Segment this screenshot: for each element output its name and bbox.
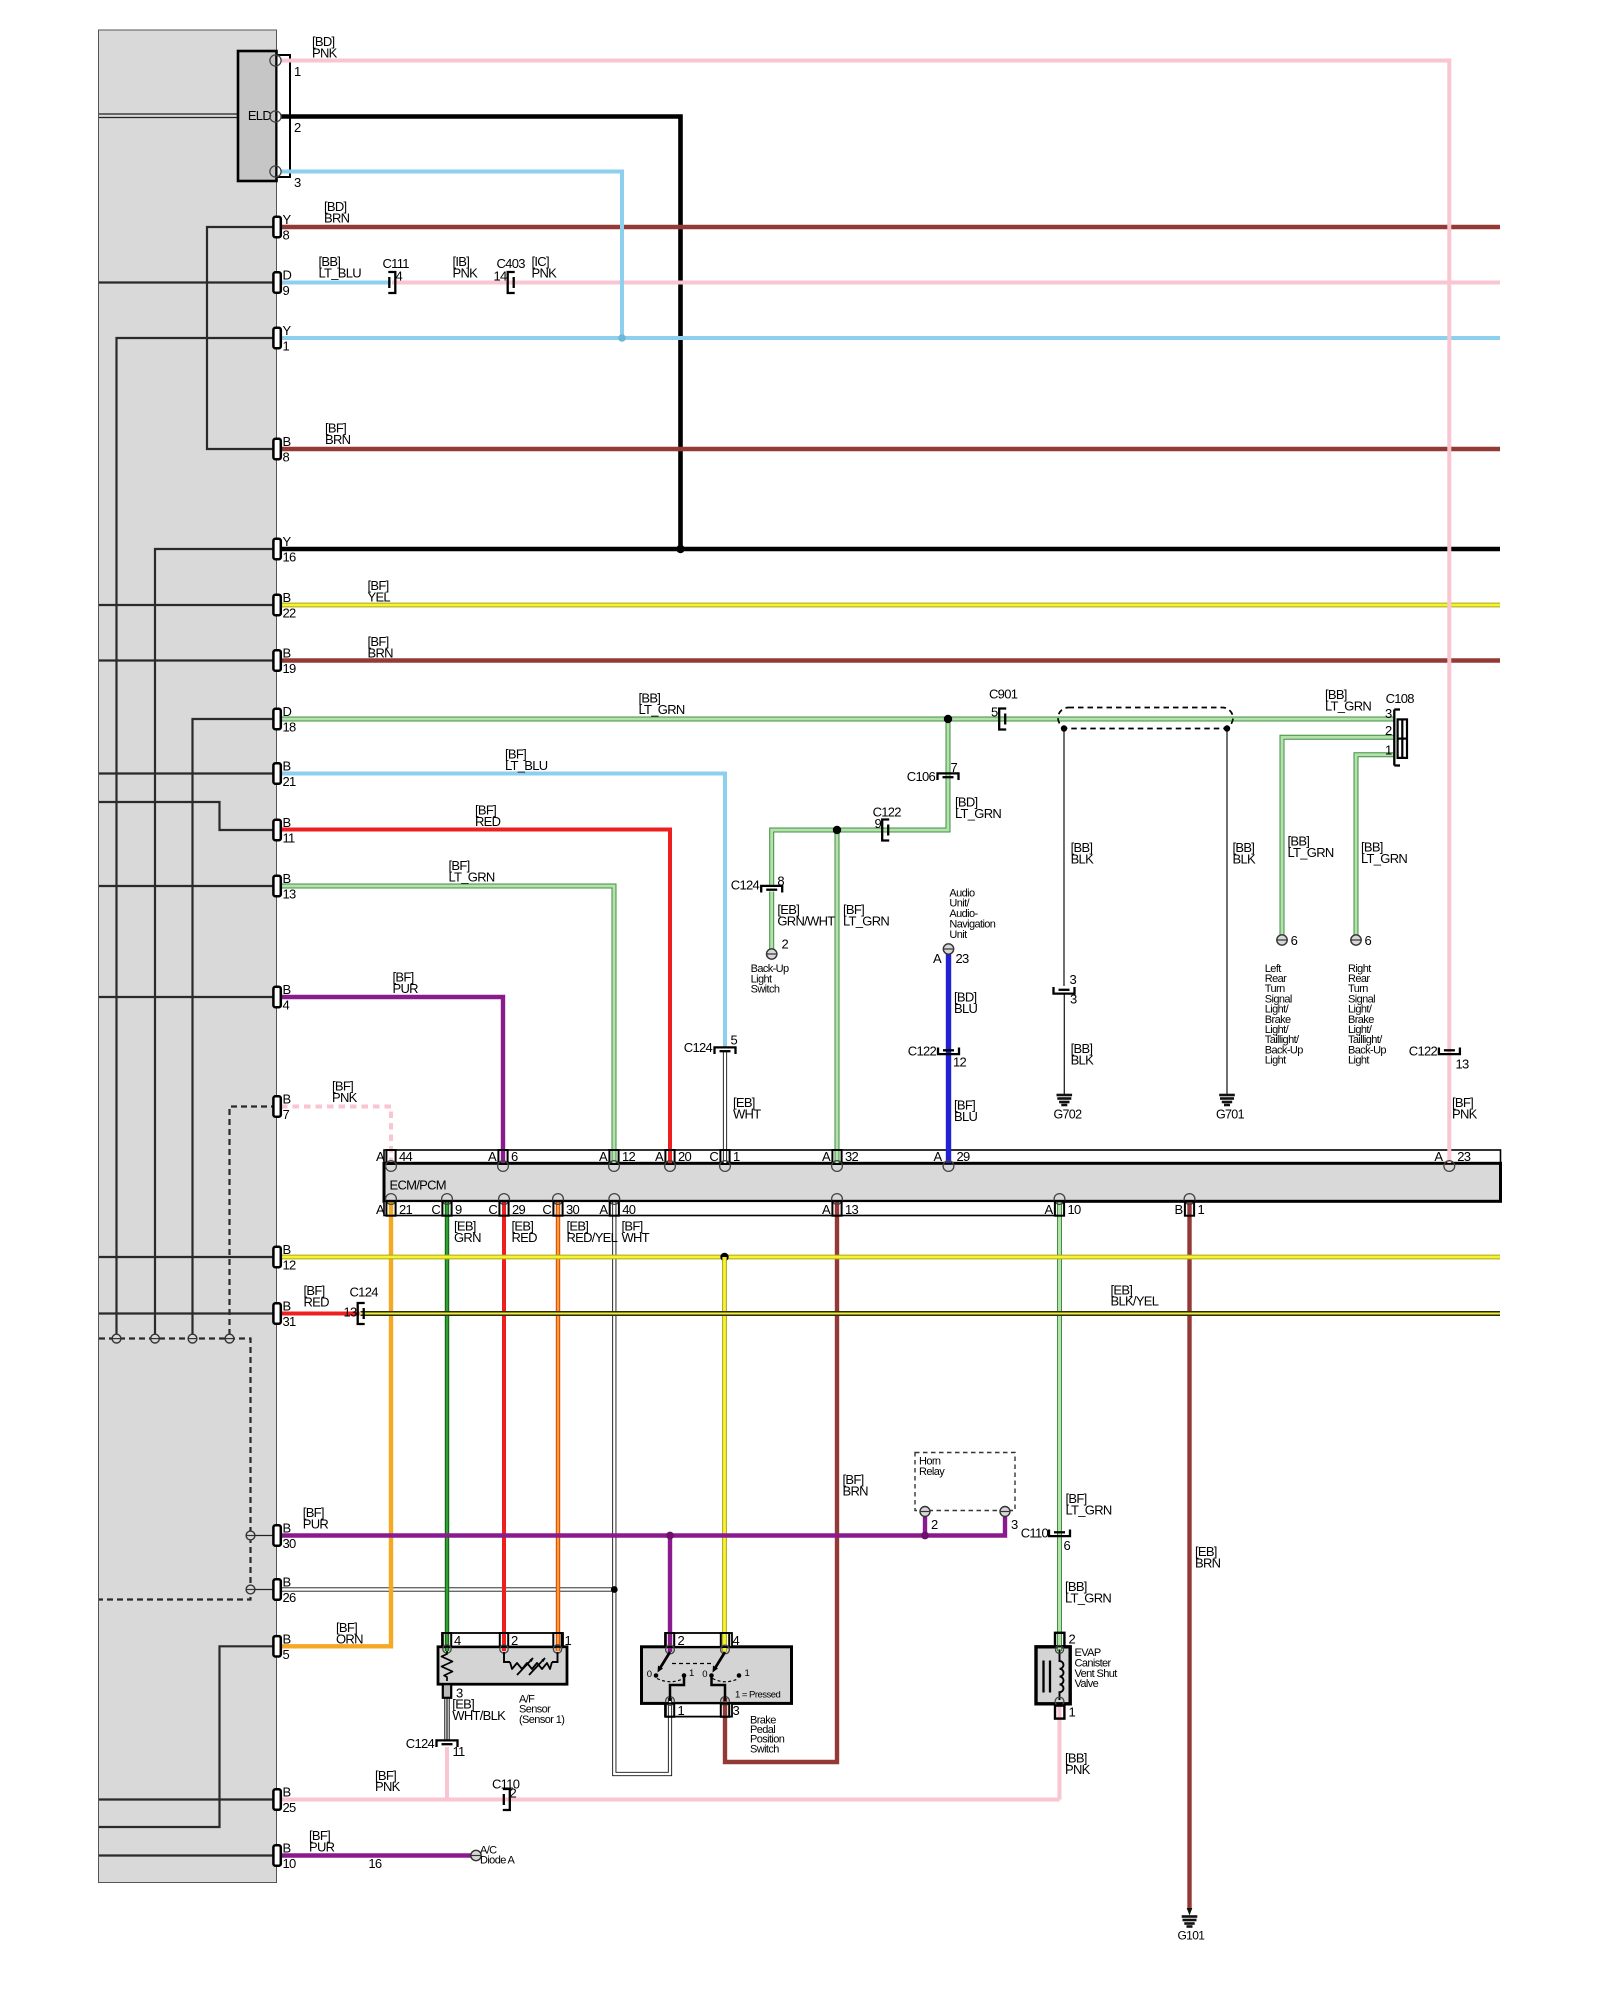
label: [EB] GRN/WHT wire bbox=[777, 902, 835, 928]
pin: audio unit terminal A23 bbox=[933, 944, 969, 966]
svg-text:9: 9 bbox=[874, 816, 881, 831]
svg-text:1: 1 bbox=[689, 1668, 694, 1679]
svg-text:1: 1 bbox=[565, 1633, 572, 1648]
harness pin B13 bbox=[273, 871, 296, 902]
label: [BF] BRN wire bbox=[325, 421, 351, 447]
harness pin B30 bbox=[273, 1521, 296, 1552]
svg-text:13: 13 bbox=[283, 887, 297, 902]
gray harness panel (left sidebar) bbox=[99, 30, 277, 1883]
svg-text:BLU: BLU bbox=[954, 1001, 977, 1016]
A/F sensor pin circles bbox=[443, 1645, 562, 1653]
svg-text:10: 10 bbox=[1068, 1202, 1082, 1217]
svg-text:RED: RED bbox=[304, 1294, 330, 1309]
svg-text:B: B bbox=[283, 1521, 291, 1536]
wire: ELD pin1 PNK [BD] bbox=[281, 61, 1449, 1164]
svg-text:PNK: PNK bbox=[1452, 1106, 1478, 1121]
harness pin B10 bbox=[273, 1841, 296, 1872]
EVAP solenoid coil bbox=[1055, 1646, 1064, 1706]
svg-text:B: B bbox=[283, 982, 291, 997]
ECM/PCM pin A12 bbox=[599, 1149, 635, 1172]
svg-text:C108: C108 bbox=[1386, 691, 1415, 706]
svg-text:BRN: BRN bbox=[325, 432, 351, 447]
svg-text:2: 2 bbox=[510, 1786, 517, 1801]
svg-text:LT_GRN: LT_GRN bbox=[1066, 1502, 1112, 1517]
svg-text:A: A bbox=[822, 1149, 831, 1164]
label: [BD] PNK wire bbox=[312, 34, 338, 60]
label: [IC] PNK wire bbox=[532, 254, 558, 280]
svg-text:10: 10 bbox=[283, 1856, 297, 1871]
svg-text:B: B bbox=[283, 815, 291, 830]
svg-text:(Sensor 1): (Sensor 1) bbox=[519, 1714, 564, 1726]
ECM/PCM pin A6 bbox=[488, 1149, 518, 1172]
svg-text:16: 16 bbox=[283, 550, 297, 565]
svg-text:YEL: YEL bbox=[368, 589, 391, 604]
wire: LT_GRN corner to Back-Up switch branch bbox=[772, 830, 841, 886]
connector C124-11 bbox=[406, 1736, 465, 1759]
harness pin B8 bbox=[273, 434, 290, 465]
ECM/PCM pin A40 bbox=[599, 1194, 635, 1218]
svg-text:1: 1 bbox=[1385, 743, 1392, 758]
svg-text:B: B bbox=[283, 590, 291, 605]
svg-text:1: 1 bbox=[283, 339, 290, 354]
label: [BF] PNK wire bbox=[375, 1768, 401, 1794]
svg-text:0: 0 bbox=[702, 1669, 707, 1680]
wire: LT_GRN C901 to C108 pin3 bbox=[1000, 717, 1395, 722]
svg-text:B: B bbox=[283, 1785, 291, 1800]
svg-text:LT_GRN: LT_GRN bbox=[1325, 698, 1371, 713]
harness pin B31 bbox=[273, 1299, 296, 1330]
harness pin Y16 bbox=[273, 534, 296, 565]
svg-text:A: A bbox=[376, 1202, 385, 1217]
svg-text:BLK: BLK bbox=[1071, 1052, 1094, 1067]
brake switch pin circles top bbox=[666, 1645, 730, 1654]
svg-text:31: 31 bbox=[283, 1314, 297, 1329]
label: [BF] PNK wire bbox=[1452, 1095, 1478, 1121]
svg-text:Relay: Relay bbox=[919, 1466, 945, 1478]
svg-text:G101: G101 bbox=[1178, 1929, 1206, 1943]
wire: B1 BRN [EB] to G101 bbox=[1187, 1202, 1191, 1911]
wire: A40 WHT [BF] to brake switch pin1 bbox=[614, 1202, 670, 1775]
svg-text:BRN: BRN bbox=[324, 210, 350, 225]
brake switch pin circles bottom bbox=[666, 1697, 730, 1706]
pin: horn relay pin3 bbox=[1000, 1507, 1018, 1533]
A/F sensor top connector bbox=[442, 1633, 572, 1648]
label: [BF] ORN wire bbox=[336, 1620, 363, 1646]
svg-text:9: 9 bbox=[283, 283, 290, 298]
svg-text:GRN/WHT: GRN/WHT bbox=[777, 914, 835, 929]
svg-text:ELD: ELD bbox=[248, 108, 271, 123]
svg-text:13: 13 bbox=[1456, 1057, 1470, 1072]
ELD box bbox=[238, 51, 277, 181]
wire: YEL branch to brake switch pin4 bbox=[722, 1257, 727, 1652]
connector 3/3 inline bbox=[1054, 972, 1078, 1007]
label: 1 = Pressed bbox=[735, 1690, 780, 1701]
ECM/PCM pin B1 bbox=[1175, 1194, 1205, 1218]
node: LT_GRN junction at C901 branch bbox=[944, 715, 952, 723]
label: [BF] PUR wire bbox=[393, 970, 419, 996]
svg-text:LT_BLU: LT_BLU bbox=[505, 758, 548, 773]
wire: BLU [BF] C122 to A29 bbox=[946, 1051, 951, 1163]
connector C901-5 bbox=[989, 687, 1018, 730]
ECM/PCM pin A10 bbox=[1045, 1194, 1081, 1218]
svg-text:12: 12 bbox=[283, 1258, 297, 1273]
svg-text:B: B bbox=[283, 1575, 291, 1590]
svg-text:B: B bbox=[283, 1841, 291, 1856]
A/F sensor body bbox=[438, 1633, 567, 1684]
svg-text:C: C bbox=[488, 1202, 497, 1217]
svg-text:8: 8 bbox=[777, 874, 784, 889]
node: PUR junction horn pin2 bbox=[921, 1532, 929, 1540]
wire: BLK/YEL [EB] bbox=[361, 1311, 1501, 1316]
wire: C30 RED/YEL [EB] to A/F pin1 bbox=[556, 1202, 560, 1652]
svg-text:C122: C122 bbox=[1409, 1044, 1438, 1059]
svg-text:Y: Y bbox=[283, 534, 292, 549]
harness pin B22 bbox=[273, 590, 296, 621]
svg-text:11: 11 bbox=[283, 831, 296, 846]
harness pin B5 bbox=[273, 1631, 290, 1662]
svg-text:23: 23 bbox=[1457, 1149, 1471, 1164]
wire: WHT/BLK [EB] A/F pin3 to C124 bbox=[444, 1698, 449, 1740]
ECM/PCM top connector row bbox=[384, 1150, 1501, 1163]
label: EVAP Canister Vent Shut Valve bbox=[1075, 1647, 1118, 1690]
label: [EB] RED wire bbox=[512, 1218, 538, 1244]
svg-text:LT_GRN: LT_GRN bbox=[843, 914, 889, 929]
wire: A10 LT_GRN [BF] to C110 bbox=[1057, 1202, 1062, 1534]
wire: A13 BRN [BF] to brake switch pin3 bbox=[725, 1202, 837, 1763]
connector C403-14 bbox=[493, 256, 525, 293]
svg-text:30: 30 bbox=[283, 1536, 297, 1551]
wire: double line into ELD bbox=[99, 114, 238, 118]
wire: C29 RED [EB] to A/F pin2 bbox=[502, 1202, 506, 1652]
harness pin B4 bbox=[273, 982, 290, 1013]
svg-text:2: 2 bbox=[1385, 723, 1392, 738]
wire: Y16 BLK bbox=[277, 547, 1500, 552]
svg-text:2: 2 bbox=[1069, 1632, 1076, 1647]
svg-text:C124: C124 bbox=[350, 1285, 379, 1300]
svg-text:WHT: WHT bbox=[733, 1106, 761, 1121]
svg-text:2: 2 bbox=[511, 1633, 518, 1648]
label: [BF] PUR wire bbox=[303, 1505, 329, 1531]
svg-text:LT_GRN: LT_GRN bbox=[1065, 1590, 1111, 1605]
A/F sensor heater resistor bbox=[442, 1651, 453, 1681]
svg-text:12: 12 bbox=[953, 1055, 967, 1070]
svg-text:11: 11 bbox=[453, 1744, 466, 1759]
wire: internal bus to D9 bbox=[99, 281, 277, 283]
svg-text:PNK: PNK bbox=[375, 1779, 401, 1794]
connector C124-13 bbox=[343, 1285, 378, 1325]
wire: D9 PNK segment [IB] bbox=[392, 281, 511, 285]
ECM/PCM pin A20 bbox=[655, 1149, 691, 1172]
label: [EB] BLK/YEL wire bbox=[1111, 1282, 1159, 1308]
svg-text:GRN: GRN bbox=[454, 1230, 481, 1245]
node: BLK junction bbox=[676, 545, 684, 553]
svg-text:1: 1 bbox=[733, 1149, 740, 1164]
svg-text:BRN: BRN bbox=[368, 645, 394, 660]
svg-text:30: 30 bbox=[566, 1202, 580, 1217]
ECM/PCM pin C29 bbox=[488, 1194, 525, 1218]
wire: internal bus Y8 to B8 bbox=[207, 227, 277, 449]
label: [EB] WHT wire bbox=[733, 1095, 761, 1121]
ground G101 bbox=[1178, 1917, 1206, 1943]
svg-text:PNK: PNK bbox=[332, 1090, 358, 1105]
EVAP valve body bbox=[1036, 1647, 1070, 1704]
label: [BD] LT_GRN wire bbox=[955, 795, 1001, 821]
wire: LT_GRN branch down to C106 bbox=[946, 719, 951, 775]
ECM/PCM pin A32 bbox=[822, 1149, 858, 1172]
harness pin B25 bbox=[273, 1785, 296, 1816]
svg-text:A: A bbox=[822, 1202, 831, 1217]
wire: internal bus to B22 bbox=[99, 604, 277, 606]
wire: PNK C124-11 to B25 row bbox=[445, 1747, 449, 1800]
svg-text:6: 6 bbox=[1291, 933, 1298, 948]
label: [BB] LT_GRN wire bbox=[1325, 687, 1371, 713]
svg-text:13: 13 bbox=[845, 1202, 859, 1217]
label: [BF] RED wire bbox=[475, 803, 501, 829]
svg-text:LT_GRN: LT_GRN bbox=[639, 702, 685, 717]
svg-text:Y: Y bbox=[283, 323, 292, 338]
node: bus terminal to B30 bbox=[246, 1531, 277, 1540]
node: YEL junction to brake switch bbox=[720, 1253, 728, 1261]
label: Left Rear light bbox=[1265, 963, 1303, 1067]
wire: shield drain to G702 bbox=[1063, 729, 1065, 1095]
wire: internal bus to B4 bbox=[99, 996, 277, 998]
label: [BB] LT_GRN wire bbox=[639, 691, 685, 717]
svg-text:0: 0 bbox=[647, 1669, 652, 1680]
svg-text:PNK: PNK bbox=[453, 265, 479, 280]
wire: internal bus Y1 down bbox=[117, 338, 278, 1335]
wire: PNK [BB] EVAP pin1 bbox=[1058, 1706, 1062, 1800]
connector C110-2 bbox=[492, 1777, 520, 1811]
harness pin Y1 bbox=[273, 323, 291, 354]
svg-text:PNK: PNK bbox=[532, 265, 558, 280]
svg-text:B: B bbox=[283, 759, 291, 774]
wire: internal bus to B13 bbox=[99, 885, 277, 887]
svg-text:PNK: PNK bbox=[312, 45, 338, 60]
svg-text:BRN: BRN bbox=[843, 1483, 869, 1498]
label: [BF] RED wire bbox=[304, 1283, 330, 1309]
wire: B1 BRN end tip bbox=[1187, 1908, 1193, 1916]
harness pin D18 bbox=[273, 704, 296, 735]
label: [BD] BLU wire bbox=[954, 990, 977, 1016]
label: [BF] PUR wire bbox=[309, 1828, 335, 1854]
svg-text:8: 8 bbox=[283, 228, 290, 243]
label: Horn Relay bbox=[919, 1456, 945, 1478]
connector C124-8 bbox=[731, 874, 785, 893]
svg-text:A: A bbox=[934, 1149, 943, 1164]
brake switch body bbox=[642, 1633, 792, 1717]
pin: horn relay pin2 bbox=[920, 1507, 938, 1533]
label: [BF] LT_BLU wire bbox=[505, 747, 548, 773]
svg-text:C124: C124 bbox=[731, 878, 760, 893]
svg-text:3: 3 bbox=[1070, 992, 1077, 1007]
svg-text:Light: Light bbox=[1265, 1055, 1286, 1067]
svg-text:B: B bbox=[283, 1631, 291, 1646]
label: [BF] WHT wire bbox=[622, 1218, 650, 1244]
label: WHT/BLK wire bbox=[452, 1697, 506, 1723]
svg-text:3: 3 bbox=[733, 1703, 740, 1718]
label: [BB] LT_GRN wire bbox=[1065, 1579, 1111, 1605]
brake switch pole link bbox=[672, 1663, 713, 1665]
label: [BB] BLK wire bbox=[1233, 840, 1256, 866]
svg-text:B: B bbox=[283, 434, 291, 449]
svg-text:40: 40 bbox=[622, 1202, 636, 1217]
svg-text:2: 2 bbox=[294, 120, 301, 135]
svg-text:25: 25 bbox=[283, 1800, 297, 1815]
label: [BF] PNK wire bbox=[332, 1079, 358, 1105]
pin: right rear light terminal bbox=[1351, 933, 1372, 948]
svg-text:B: B bbox=[283, 646, 291, 661]
wire: D18 LT_GRN to C901 bbox=[277, 717, 1000, 722]
node: WHT junction bbox=[611, 1586, 618, 1593]
svg-text:4: 4 bbox=[733, 1633, 740, 1648]
label: [IB] PNK wire bbox=[453, 254, 479, 280]
wire: D9 LT_BLU segment bbox=[277, 281, 391, 285]
harness pin B7 bbox=[273, 1092, 290, 1123]
label: [BB] BLK wire bbox=[1071, 840, 1094, 866]
brake switch bottom connector bbox=[665, 1703, 740, 1718]
harness pin Y8 bbox=[273, 212, 291, 243]
harness pin B26 bbox=[273, 1575, 296, 1606]
connector C122-12 bbox=[908, 1044, 967, 1070]
svg-text:A: A bbox=[655, 1149, 664, 1164]
svg-text:RED: RED bbox=[475, 814, 501, 829]
svg-text:A: A bbox=[599, 1149, 608, 1164]
svg-text:13: 13 bbox=[343, 1305, 357, 1320]
svg-text:G701: G701 bbox=[1216, 1108, 1245, 1122]
svg-text:22: 22 bbox=[283, 606, 297, 621]
svg-text:B: B bbox=[1175, 1202, 1183, 1217]
pin: A/C diode terminal bbox=[471, 1850, 481, 1860]
svg-text:BRN: BRN bbox=[1195, 1555, 1221, 1570]
svg-text:Valve: Valve bbox=[1075, 1678, 1099, 1690]
pin: back-up light switch terminal bbox=[767, 937, 789, 960]
node: LT_BLU junction bbox=[618, 334, 626, 342]
svg-text:1 = Pressed: 1 = Pressed bbox=[735, 1690, 780, 1701]
wire: B11 RED [BF] to A20 bbox=[277, 830, 670, 1164]
svg-text:A: A bbox=[376, 1149, 385, 1164]
svg-text:PUR: PUR bbox=[309, 1839, 335, 1854]
ECM/PCM pin C9 bbox=[431, 1194, 462, 1218]
svg-text:5: 5 bbox=[991, 705, 998, 720]
wire: B26 WHT to junction bbox=[277, 1587, 614, 1591]
label: [BB] BLK wire bbox=[1071, 1041, 1094, 1067]
label: [BF] BRN wire bbox=[368, 634, 394, 660]
wire: B31 RED segment to C124 bbox=[277, 1312, 360, 1316]
svg-text:C122: C122 bbox=[908, 1044, 937, 1059]
harness pin B11 bbox=[273, 815, 295, 846]
svg-text:1: 1 bbox=[745, 1668, 750, 1679]
svg-text:29: 29 bbox=[512, 1202, 526, 1217]
svg-text:B: B bbox=[283, 1092, 291, 1107]
svg-text:LT_BLU: LT_BLU bbox=[319, 265, 362, 280]
wire: internal bus to B31 bbox=[99, 1312, 277, 1314]
node: shield drain junction left bbox=[1061, 725, 1067, 731]
wire: internal bus D18 down bbox=[193, 719, 278, 1335]
connector C122-13 on PNK bbox=[1409, 1044, 1469, 1072]
label: [BB] LT_BLU wire bbox=[319, 254, 362, 280]
label: [EB] RED/YEL wire bbox=[567, 1218, 618, 1244]
wire: internal bus to B19 bbox=[99, 659, 277, 661]
label: [BF] BRN wire bbox=[843, 1472, 869, 1498]
wire: LT_GRN [BF] down to A32 bbox=[835, 830, 840, 1163]
svg-text:16: 16 bbox=[368, 1856, 382, 1871]
svg-text:2: 2 bbox=[782, 937, 789, 952]
node: shield drain junction right bbox=[1224, 725, 1230, 731]
svg-text:C124: C124 bbox=[684, 1040, 713, 1055]
connector C111-4 bbox=[383, 256, 410, 293]
connector C108 bbox=[1385, 691, 1414, 766]
svg-text:5: 5 bbox=[283, 1647, 290, 1662]
ECM/PCM pin C1 bbox=[709, 1149, 740, 1172]
svg-text:LT_GRN: LT_GRN bbox=[1288, 845, 1334, 860]
wire: LT_GRN C108 pin1 to right rear light bbox=[1356, 755, 1395, 935]
svg-text:C124: C124 bbox=[406, 1736, 435, 1751]
svg-text:C: C bbox=[431, 1202, 440, 1217]
ECM/PCM pin A23 bbox=[1434, 1149, 1470, 1172]
svg-text:1: 1 bbox=[1069, 1705, 1076, 1720]
svg-text:9: 9 bbox=[455, 1202, 462, 1217]
svg-text:BLU: BLU bbox=[954, 1109, 977, 1124]
svg-text:BLK: BLK bbox=[1233, 851, 1256, 866]
svg-text:4: 4 bbox=[454, 1633, 461, 1648]
wire: LT_GRN C108 pin2 to left rear light bbox=[1282, 737, 1395, 935]
label: [BF] BLU wire bbox=[954, 1098, 977, 1124]
brake switch pole 1 bbox=[647, 1652, 694, 1701]
label: [EB] GRN wire bbox=[454, 1218, 481, 1244]
connector C110-6 bbox=[1021, 1526, 1071, 1554]
svg-text:1: 1 bbox=[294, 64, 301, 79]
svg-text:A: A bbox=[599, 1202, 608, 1217]
wire: ELD pin2 BLK to Y16 row bbox=[281, 117, 681, 550]
wire: internal bus to B11 bbox=[99, 802, 277, 830]
wire: Y1 LT_BLU bbox=[277, 336, 1500, 340]
svg-text:3: 3 bbox=[1070, 972, 1077, 987]
ECM/PCM pin A29 bbox=[934, 1149, 970, 1172]
svg-text:20: 20 bbox=[678, 1149, 692, 1164]
brake switch pole 2 bbox=[702, 1652, 749, 1701]
harness pin D9 bbox=[273, 268, 291, 299]
svg-text:1: 1 bbox=[678, 1703, 685, 1718]
svg-text:LT_GRN: LT_GRN bbox=[955, 806, 1001, 821]
ECM/PCM pin C30 bbox=[542, 1194, 579, 1218]
svg-text:Switch: Switch bbox=[750, 1743, 779, 1755]
pin: left rear light terminal bbox=[1277, 933, 1298, 948]
svg-text:2: 2 bbox=[931, 1517, 938, 1532]
svg-text:ECM/PCM: ECM/PCM bbox=[390, 1178, 446, 1193]
svg-text:7: 7 bbox=[951, 760, 958, 775]
node: LT_GRN junction at A32 branch bbox=[833, 826, 841, 834]
connector C122-9 bbox=[873, 805, 902, 841]
wire: C9 GRN [EB] to A/F pin4 bbox=[445, 1202, 449, 1652]
wire: internal bus Y16 down bbox=[155, 549, 277, 1335]
svg-text:PUR: PUR bbox=[393, 981, 419, 996]
ELD connector face bbox=[277, 55, 291, 177]
svg-text:WHT: WHT bbox=[622, 1230, 650, 1245]
svg-text:PUR: PUR bbox=[303, 1516, 329, 1531]
svg-text:4: 4 bbox=[283, 998, 290, 1013]
A/F sensor element bbox=[504, 1652, 558, 1675]
svg-text:44: 44 bbox=[399, 1149, 413, 1164]
EVAP pin1 slot bbox=[1055, 1705, 1076, 1720]
connector C106-7 bbox=[907, 760, 959, 784]
svg-text:Y: Y bbox=[283, 212, 292, 227]
svg-text:A: A bbox=[488, 1149, 497, 1164]
svg-text:19: 19 bbox=[283, 661, 297, 676]
ground G702 bbox=[1054, 1095, 1083, 1122]
svg-text:LT_GRN: LT_GRN bbox=[1361, 851, 1407, 866]
label: Right Rear light bbox=[1348, 963, 1386, 1067]
svg-text:PNK: PNK bbox=[1065, 1762, 1091, 1777]
